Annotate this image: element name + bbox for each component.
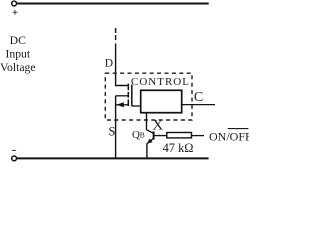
control block U1 — [141, 90, 182, 112]
transistor Q1 gate bar — [131, 85, 133, 107]
svg-text:CONTROL: CONTROL — [131, 76, 190, 88]
wire source with body arrow — [116, 104, 128, 106]
terminal + (top input terminal) — [12, 1, 17, 6]
svg-text:S: S — [109, 125, 116, 139]
transistor QB collector diagonal — [147, 130, 154, 134]
plus label — [13, 10, 18, 15]
wire gate lead — [132, 105, 142, 107]
transistor Q1 pass switch channel bar — [127, 84, 129, 106]
transistor QB emitter with arrow — [147, 139, 153, 144]
terminal - (bottom input terminal) — [12, 156, 17, 161]
wire top rail — [16, 3, 208, 5]
label DC Input Voltage — [0, 34, 36, 74]
wire drain lead — [116, 44, 129, 86]
label QB — [132, 129, 145, 141]
wire drain lead dashed — [115, 28, 117, 40]
wire source lead — [115, 96, 117, 159]
wire emitter to rail — [146, 144, 148, 159]
wire resistor to ON/OFF — [192, 135, 205, 137]
svg-text:Voltage: Voltage — [0, 61, 36, 74]
minus label — [12, 149, 16, 151]
resistor R1 47k body — [167, 133, 192, 138]
transistor QB base bar — [153, 131, 155, 139]
svg-text:47 kΩ: 47 kΩ — [163, 141, 194, 155]
wire body tie — [116, 95, 128, 97]
svg-text:C: C — [194, 90, 203, 105]
svg-text:DC: DC — [10, 34, 26, 47]
IC boundary dashed box — [105, 73, 192, 120]
wire node X collector — [146, 113, 148, 130]
svg-text:D: D — [105, 58, 113, 70]
svg-text:Input: Input — [5, 48, 30, 61]
wire base to resistor — [154, 135, 167, 137]
svg-text:B: B — [140, 131, 145, 140]
svg-text:ON/OFF: ON/OFF — [209, 129, 249, 143]
svg-text:X: X — [152, 118, 163, 134]
svg-text:Q: Q — [132, 129, 140, 141]
wire bottom rail — [16, 157, 208, 159]
overline on OFF — [228, 128, 249, 130]
wire C output — [182, 104, 215, 106]
